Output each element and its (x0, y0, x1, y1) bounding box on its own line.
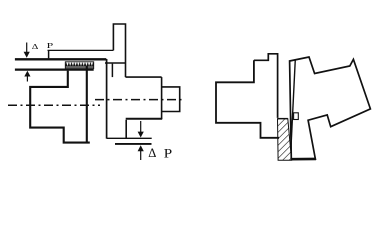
small clearance square at contact (294, 113, 299, 120)
svg-text:Δ: Δ (32, 42, 39, 51)
contact face step line (278, 118, 288, 120)
flange bottom heavy edge (291, 158, 316, 161)
arrow up (top dimension) (24, 71, 30, 82)
right disc front face (106, 59, 108, 139)
key / hatched insert (65, 62, 93, 69)
left coupling half outline (30, 71, 90, 143)
bottom dimension line 1 (107, 137, 152, 139)
label delta-P top (32, 41, 54, 51)
cavity bottom line (126, 118, 163, 120)
arrow down (top dimension) (24, 43, 30, 58)
sleeve upper line left part (15, 58, 106, 60)
centerline right shaft (offset up) (95, 99, 185, 101)
arrow down (bottom dimension) (138, 121, 144, 138)
step line right of sleeve (105, 62, 126, 64)
arrow up (bottom dimension) (138, 145, 144, 160)
centerline left shaft (8, 104, 100, 106)
offset step edge (48, 50, 50, 58)
sleeve lower line (15, 68, 94, 70)
gap face line (second slant) (291, 59, 295, 149)
svg-text:P: P (47, 41, 55, 50)
left coupling half (cross) (254, 54, 278, 118)
label delta-P bottom (148, 146, 172, 161)
left face lower segment (125, 120, 127, 138)
right coupling flange tab (113, 24, 125, 77)
hatched interference wedge (278, 119, 292, 161)
bottom dimension line 2 (115, 143, 152, 145)
sleeve top line (right hub, offset up) (48, 49, 114, 51)
svg-text:Δ: Δ (148, 146, 156, 160)
tilted coupling half (290, 57, 371, 159)
svg-text:P: P (164, 147, 172, 161)
right coupling hub + shaft (126, 76, 162, 78)
inner bore edge (111, 64, 113, 78)
left flange right face (86, 66, 88, 143)
